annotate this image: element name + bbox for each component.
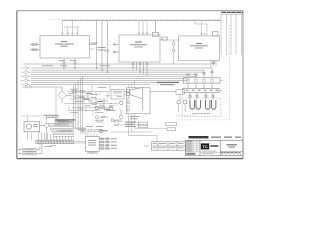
dashed vertical boundary right: [229, 25, 231, 120]
battery BT2: [206, 100, 216, 109]
node 1B label box: [150, 90, 184, 101]
title block table: [186, 140, 244, 156]
wires above IC: [86, 128, 97, 137]
battery dashed box: [182, 98, 221, 116]
title block left rows: [186, 140, 201, 152]
IC bottom stub: [91, 151, 93, 154]
module 3D left pins: [113, 44, 119, 53]
transistor Q2: [109, 107, 112, 110]
bottom center table: [152, 142, 186, 150]
transistor Q3: [120, 101, 123, 104]
terminal strip ticks: [37, 141, 73, 142]
lamp L1: [172, 40, 175, 45]
module box 3D: [119, 35, 160, 62]
harness text: [25, 149, 35, 153]
terminal strip TB1: [36, 140, 74, 143]
dashed boundary bottom right: [176, 119, 230, 121]
regulator box U2: [111, 90, 127, 100]
connector J3: [177, 101, 187, 113]
dashed boundary bottom left: [152, 83, 176, 85]
wire bus upper: [23, 63, 211, 65]
node 2B label box bottom: [167, 128, 175, 131]
IC U1 label: [88, 140, 96, 146]
wire labels: [98, 47, 106, 50]
module 1A label: [55, 41, 74, 47]
fuse F1: [22, 86, 62, 88]
module 1A bottom pins: [64, 58, 75, 68]
harness arrows: [19, 149, 24, 155]
junction dots: [63, 67, 140, 73]
cluster labels: [68, 87, 122, 113]
module 3D label: [130, 42, 147, 48]
connector block J1: [55, 121, 68, 126]
speaker box bottom wires: [129, 114, 168, 136]
module 4B top wiring: [195, 21, 207, 36]
labels mid right: [125, 122, 136, 128]
harness label box 1: [23, 143, 40, 151]
wire bus lines: [31, 68, 212, 84]
motor box M1: [24, 122, 40, 132]
terminal strip box B: [183, 88, 223, 92]
relay K2: [213, 32, 219, 36]
cluster extra wires: [69, 92, 108, 116]
resistor R9: [115, 124, 123, 126]
lamp L2: [172, 45, 175, 64]
title bottom row text: [221, 152, 240, 153]
node 4A label box left: [163, 37, 168, 40]
bus drop wires to IC: [74, 76, 86, 133]
motor label: [33, 124, 38, 127]
module box 4B: [179, 36, 220, 61]
wire drops right of 1A: [97, 21, 108, 72]
revision table: [221, 11, 243, 55]
bottom center table text: [153, 143, 184, 148]
box A top pins: [187, 68, 213, 78]
left fan wires to terminal strip: [48, 124, 74, 137]
junction dots cluster: [83, 95, 111, 104]
connector label rows: [44, 115, 58, 118]
resistor R3: [72, 91, 77, 93]
transistor Q4: [99, 129, 102, 132]
module 3D pin pads: [132, 63, 148, 65]
module 1A right wire: [89, 45, 96, 50]
node 2A label: [91, 43, 98, 44]
svg-text:TC: TC: [202, 144, 207, 149]
node DK label box 1: [138, 122, 147, 125]
dashed boundary line top: [48, 19, 221, 21]
module 1A top pins: [62, 20, 79, 36]
resistor R10 series pair: [56, 130, 74, 132]
pin labels below 1A: [59, 59, 76, 62]
motor wires: [22, 116, 60, 140]
bus labels: [42, 64, 110, 67]
transistor Q5: [119, 109, 122, 118]
module 3D top pins: [138, 21, 147, 35]
relay K1: [153, 21, 159, 37]
DK area label: [100, 130, 108, 131]
battery BT1: [190, 100, 200, 109]
transistor Q6: [96, 116, 108, 119]
title text: [226, 144, 237, 147]
terminal strip vertical wires: [39, 132, 72, 140]
logo: [200, 143, 220, 154]
wires A to B: [188, 83, 212, 88]
node DK label box 2: [138, 125, 147, 127]
module 1A bottom pads: [63, 63, 76, 65]
notes text row: [189, 136, 242, 138]
resistor R8: [111, 121, 122, 123]
strip to IC wires: [74, 142, 86, 144]
battery label: [192, 112, 210, 115]
speaker horn SP1: [127, 87, 143, 110]
components under speaker: [127, 95, 129, 111]
transistor Q1: [95, 106, 98, 109]
wire 3D to 4B: [160, 39, 179, 41]
labels above IC: [86, 125, 103, 128]
IC bottom label: [87, 152, 98, 155]
box B ticks: [186, 90, 218, 91]
terminal strip box A: [183, 78, 223, 83]
cluster bottom labels: [55, 119, 75, 122]
title block left text: [186, 141, 195, 155]
module box 1A: [40, 35, 89, 58]
speaker feed wires: [129, 80, 135, 88]
resistor R5: [84, 98, 89, 100]
mini cluster labels: [95, 120, 104, 122]
capacitor C1: [105, 50, 109, 52]
dashed section labels: [157, 82, 179, 85]
transistor Q7: [111, 119, 122, 122]
center cluster wires: [56, 85, 118, 121]
bridge rectifier D1: [58, 87, 71, 104]
wire top horizontal: [63, 20, 221, 22]
node 2B label box top: [166, 123, 177, 126]
resistor R7: [100, 107, 105, 109]
wire IC to loop: [110, 131, 132, 133]
speaker box: [127, 88, 151, 114]
resistor R4: [80, 91, 85, 93]
battery wires: [189, 93, 214, 100]
resistor R2: [30, 49, 40, 51]
IC U1: [86, 137, 100, 152]
speaker labels: [130, 116, 140, 119]
bus source flags: [21, 67, 30, 86]
dashed wire segment: [176, 115, 196, 117]
resistor R1: [30, 44, 40, 46]
node 4A label box: [162, 37, 168, 40]
module 3D bottom pins: [133, 62, 147, 76]
border frame: [17, 11, 243, 159]
dash before table: [144, 145, 149, 147]
revision table header text: [222, 12, 243, 13]
potentiometer RV1: [80, 128, 99, 134]
module 4B label: [190, 43, 208, 48]
cluster dark labels: [79, 93, 110, 110]
strip area labels: [44, 145, 56, 147]
module 4B bottom pins: [211, 61, 216, 68]
IC right pads: [99, 138, 110, 149]
resistor R6: [92, 103, 97, 105]
title bottom row: [220, 151, 243, 155]
wire to DK boxes: [122, 123, 138, 125]
harness label box 2: [23, 143, 42, 155]
sensor circle B1: [40, 124, 49, 141]
wire loop bottom center: [129, 136, 158, 142]
IC pad labels: [111, 138, 117, 148]
